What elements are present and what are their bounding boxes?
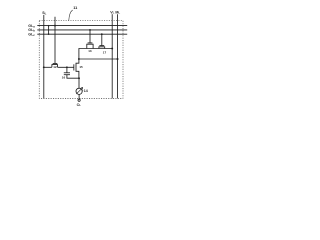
svg-text:15: 15 [79, 65, 83, 69]
svg-text:CL: CL [77, 103, 82, 107]
svg-text:12: 12 [53, 65, 57, 69]
svg-text:ML: ML [115, 10, 120, 14]
svg-text:16: 16 [62, 75, 66, 79]
svg-text:SL: SL [42, 11, 46, 15]
svg-text:VL: VL [110, 10, 114, 14]
svg-text:17: 17 [103, 51, 107, 55]
svg-text:11: 11 [73, 5, 78, 10]
svg-text:13: 13 [88, 49, 92, 53]
svg-text:GLc: GLc [28, 33, 35, 38]
svg-text:14: 14 [84, 89, 88, 93]
